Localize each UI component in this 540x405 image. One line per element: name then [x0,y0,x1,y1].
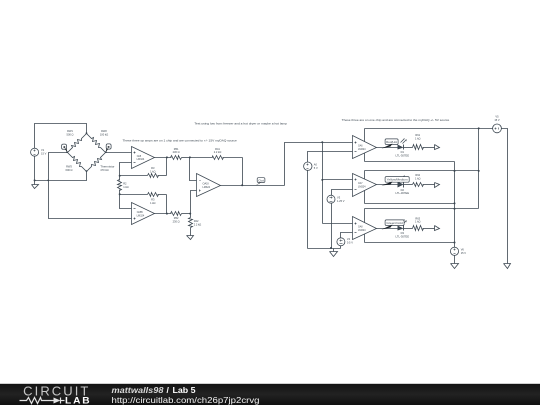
svg-text:These three are on one chip an: These three are on one chip and are conn… [342,118,450,122]
svg-text:500 Ω: 500 Ω [67,133,74,137]
svg-text:A0: A0 [314,162,318,166]
svg-text:1 kΩ: 1 kΩ [150,169,155,173]
svg-text:Green/Cold: Green/Cold [386,221,403,225]
svg-text:R2: R2 [123,181,127,185]
svg-text:230 Ω: 230 Ω [173,150,180,154]
svg-text:Test using low from freezer an: Test using low from freezer and a hot dr… [194,122,287,126]
svg-text:Out: Out [258,178,264,182]
svg-text:V3: V3 [337,195,341,199]
svg-text:2.2 kΩ: 2.2 kΩ [214,150,222,154]
svg-text:15 V: 15 V [461,251,467,255]
svg-text:1 kΩ: 1 kΩ [150,201,155,205]
svg-text:LM324: LM324 [358,186,366,189]
svg-text:Red/Hot: Red/Hot [386,140,397,144]
svg-text:V1: V1 [41,148,45,152]
svg-text:LTL-307EE: LTL-307EE [396,153,410,157]
svg-text:1 kΩ: 1 kΩ [415,136,420,140]
svg-text:230 Ω: 230 Ω [173,220,180,224]
svg-text:100 kΩ: 100 kΩ [100,133,108,137]
svg-text:mattwalls98: mattwalls98 [112,385,164,395]
svg-text:Yellow/Medium: Yellow/Medium [387,178,409,182]
svg-text:V6: V6 [461,248,465,252]
svg-text:Lab 5: Lab 5 [173,385,196,395]
svg-text:V4: V4 [347,237,351,241]
svg-text:15 V: 15 V [41,152,47,156]
svg-text:5 V: 5 V [314,166,318,170]
svg-text:LM324: LM324 [137,214,145,217]
svg-text:1.25 V: 1.25 V [337,199,345,203]
svg-text:These three op amps are on 1 c: These three op amps are on 1 chip and ar… [123,139,238,143]
svg-text:LM324: LM324 [358,229,366,232]
svg-text:V5: V5 [495,115,499,119]
svg-text:R42: R42 [194,219,199,223]
svg-text:LM324: LM324 [203,186,211,189]
svg-text:LM324: LM324 [358,148,366,151]
svg-text:LAB: LAB [65,396,92,405]
svg-text:15 V: 15 V [494,118,500,122]
svg-text:LM324: LM324 [137,158,145,161]
svg-text:0.5 V: 0.5 V [347,241,353,245]
svg-text:http://circuitlab.com/ch26p7jp: http://circuitlab.com/ch26p7jp2crvg [112,395,260,405]
svg-text:2.2 kΩ: 2.2 kΩ [194,222,202,226]
svg-text:470 kΩ: 470 kΩ [100,168,108,172]
svg-text:1 kΩ: 1 kΩ [415,176,420,180]
svg-text:LTL-307EE: LTL-307EE [396,234,410,238]
svg-text:1 kΩ: 1 kΩ [123,185,128,189]
svg-text:1 kΩ: 1 kΩ [415,220,420,224]
svg-text:LTL-307EE: LTL-307EE [396,191,410,195]
svg-text:600 Ω: 600 Ω [66,168,73,172]
